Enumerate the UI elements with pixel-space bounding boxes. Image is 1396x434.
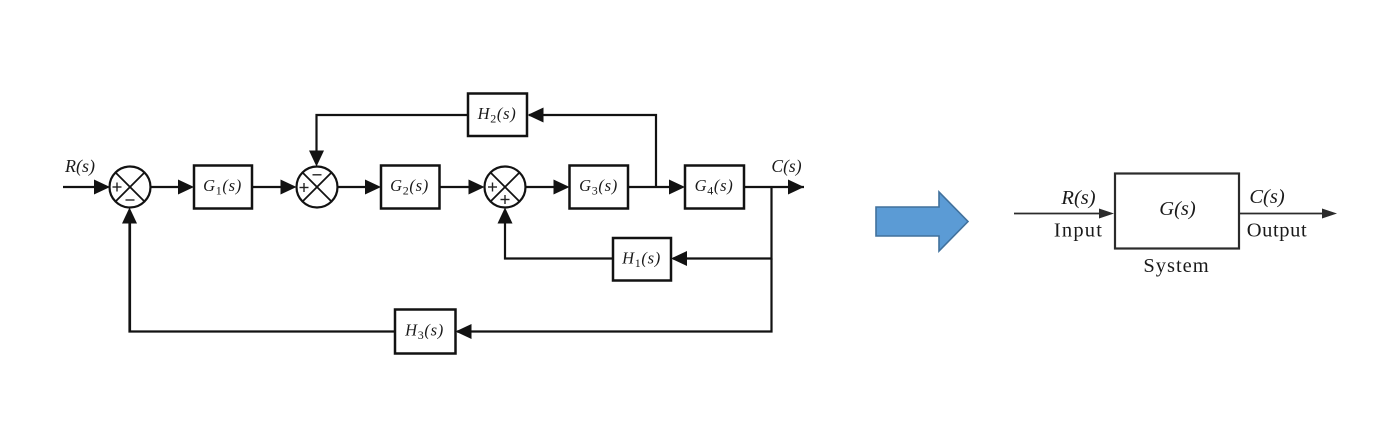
- svg-text:H2(s): H2(s): [477, 104, 517, 126]
- svg-text:Output: Output: [1247, 220, 1308, 242]
- svg-text:G(s): G(s): [1159, 198, 1196, 220]
- svg-text:C(s): C(s): [771, 156, 801, 176]
- svg-text:H3(s): H3(s): [404, 321, 444, 343]
- svg-text:C(s): C(s): [1249, 186, 1284, 208]
- svg-text:H1(s): H1(s): [621, 248, 661, 270]
- svg-text:G4(s): G4(s): [695, 176, 734, 198]
- svg-text:R(s): R(s): [1060, 187, 1095, 209]
- svg-text:R(s): R(s): [64, 156, 95, 177]
- svg-text:Input: Input: [1054, 220, 1103, 242]
- svg-text:G3(s): G3(s): [579, 176, 618, 198]
- svg-text:G2(s): G2(s): [390, 176, 429, 198]
- svg-text:G1(s): G1(s): [203, 176, 242, 198]
- svg-text:System: System: [1143, 255, 1209, 277]
